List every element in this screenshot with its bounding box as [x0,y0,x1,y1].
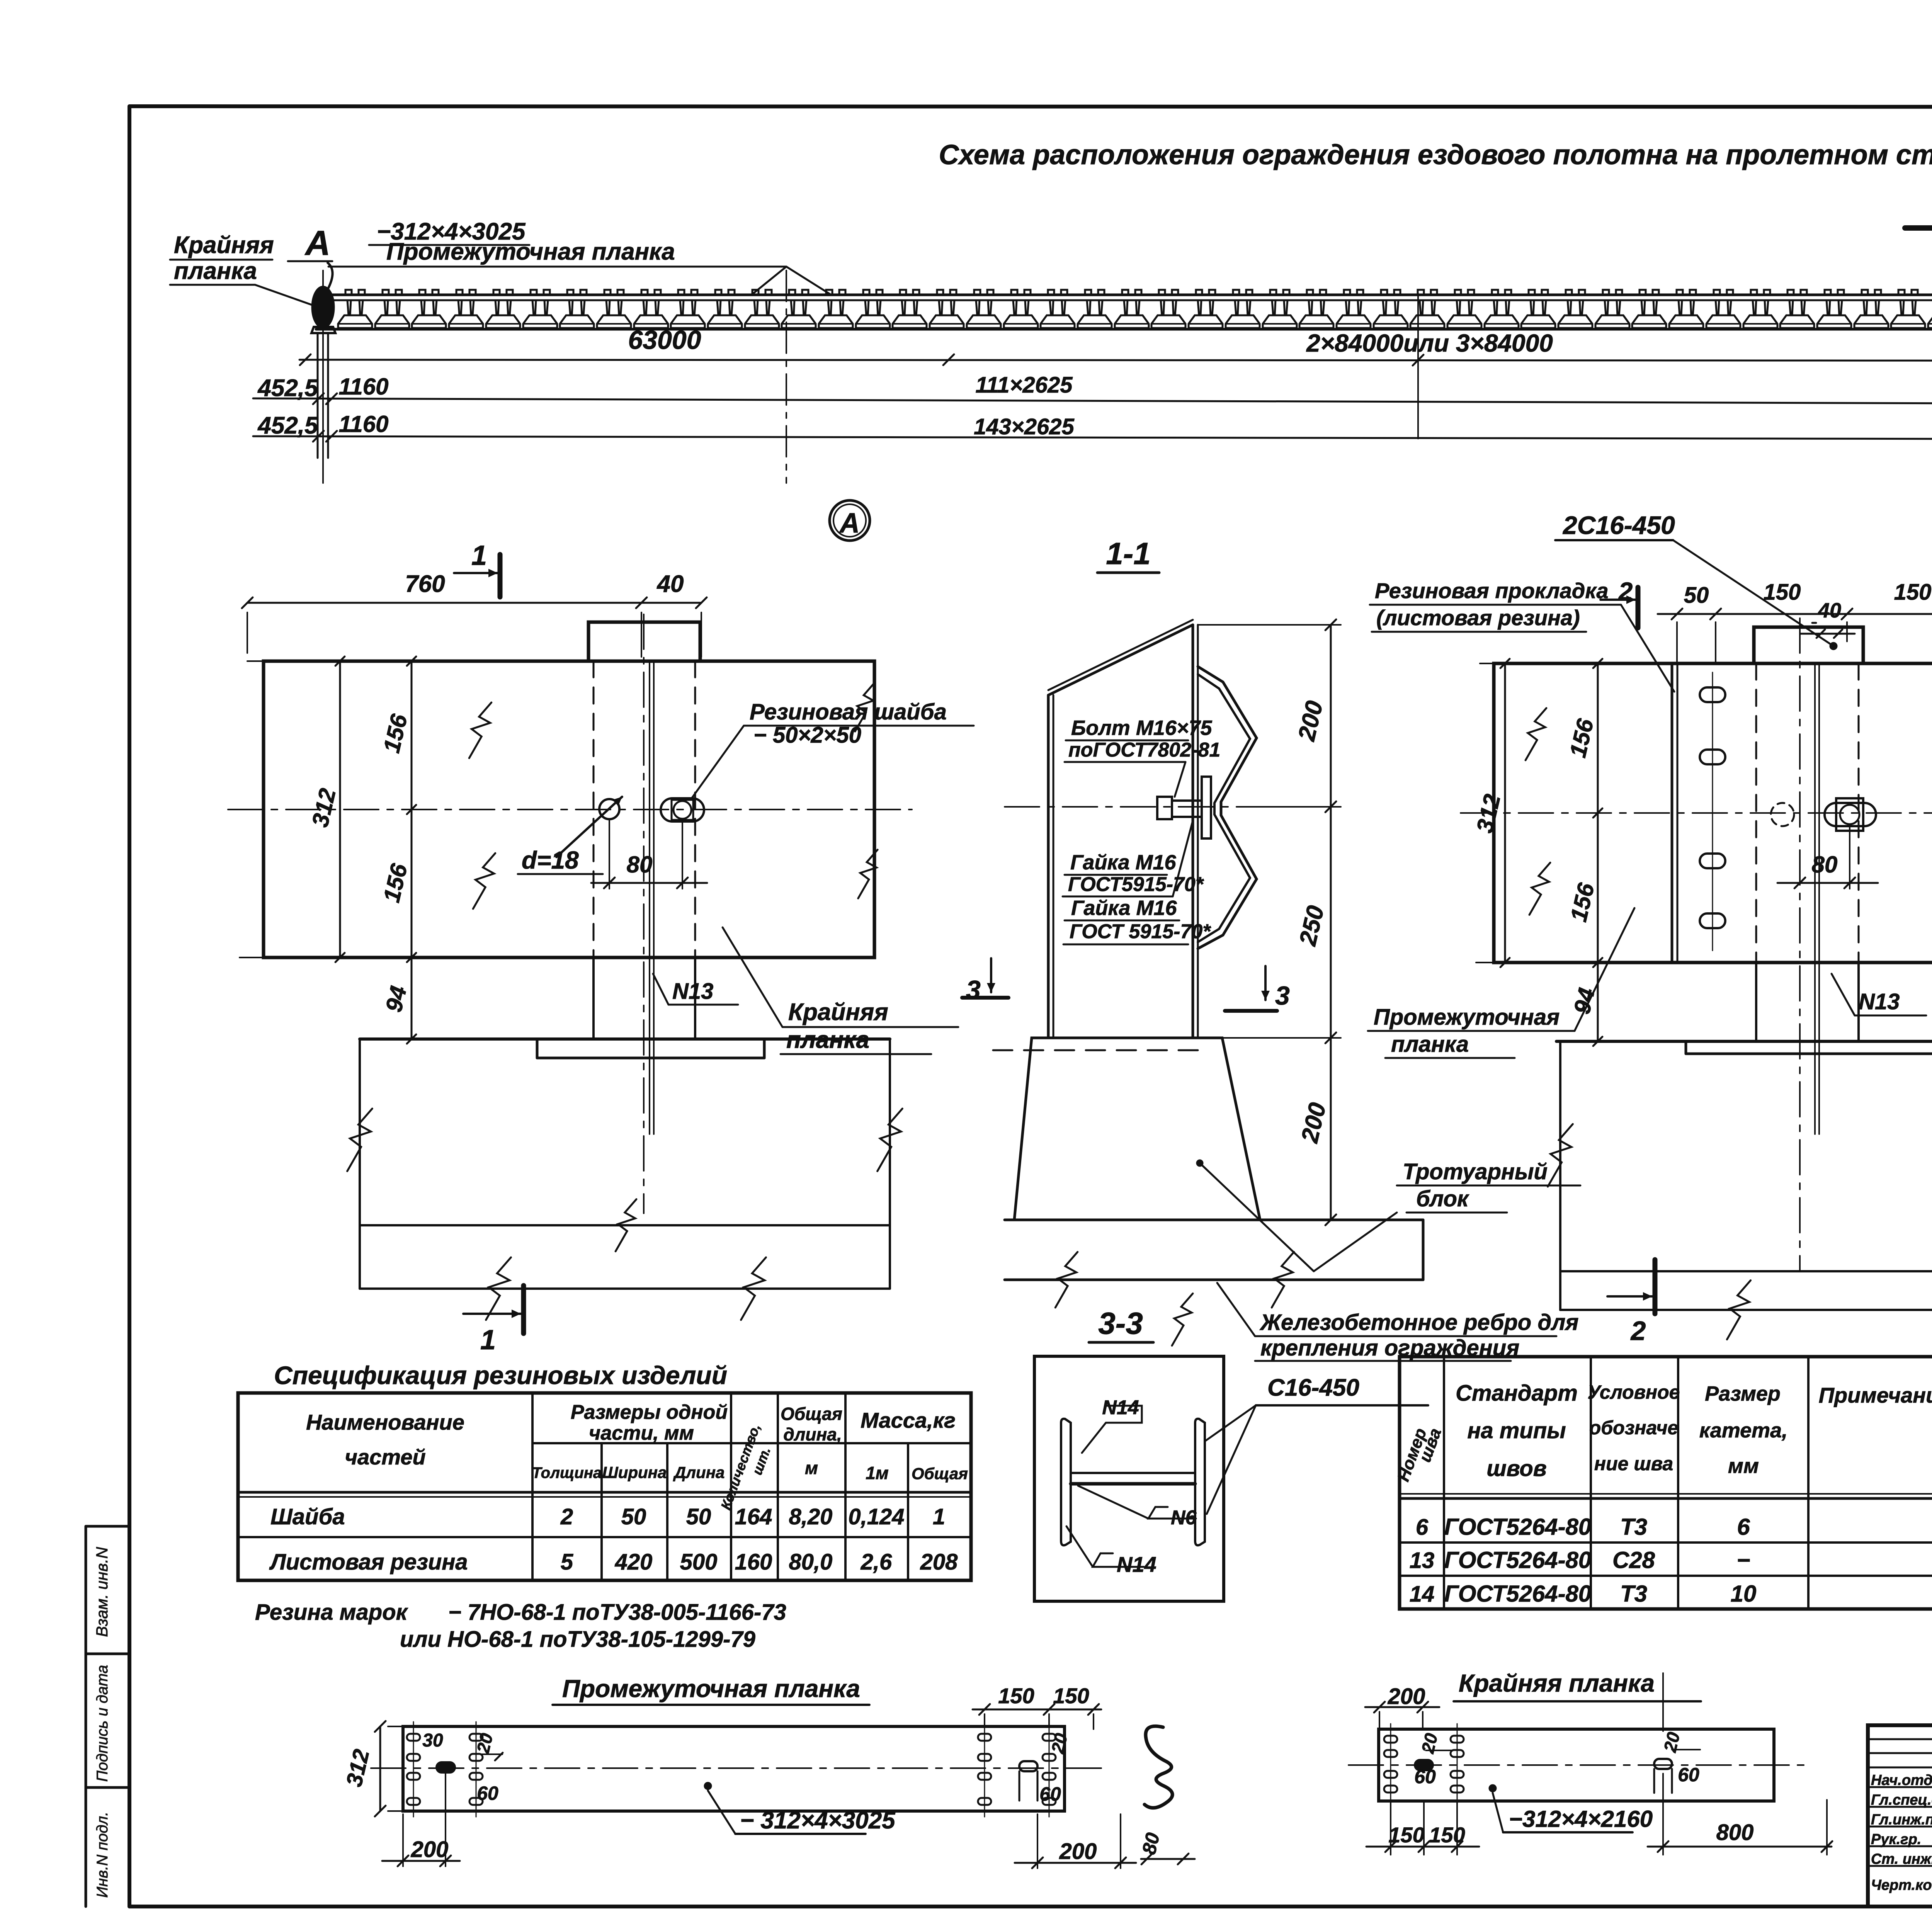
svg-text:катета,: катета, [1699,1419,1787,1442]
svg-text:Резиновая шайба: Резиновая шайба [750,699,947,724]
svg-text:части, мм: части, мм [589,1422,694,1444]
svg-text:ГОСТ5264-80: ГОСТ5264-80 [1444,1547,1592,1573]
svg-text:поГОСТ7802-81: поГОСТ7802-81 [1068,739,1220,761]
svg-text:м: м [805,1458,818,1478]
svg-text:2,6: 2,6 [861,1549,892,1575]
svg-text:50: 50 [686,1504,711,1529]
svg-text:8,20: 8,20 [789,1504,833,1529]
svg-text:Стандарт: Стандарт [1456,1381,1578,1406]
svg-text:или НО-68-1 поТУ38-105-1299-79: или НО-68-1 поТУ38-105-1299-79 [400,1627,755,1652]
svg-text:Крайняя: Крайняя [174,232,274,259]
svg-text:Рук.гр.: Рук.гр. [1871,1832,1921,1848]
svg-text:60: 60 [1414,1766,1436,1787]
svg-text:6: 6 [1737,1514,1750,1540]
svg-text:Длина: Длина [673,1463,725,1481]
svg-text:N13: N13 [672,979,713,1004]
svg-text:200: 200 [1388,1684,1425,1709]
svg-text:Инв.N подл.: Инв.N подл. [94,1812,111,1898]
svg-text:N13: N13 [1859,989,1900,1014]
svg-text:Спецификация резиновых изд: Спецификация резиновых изделий [274,1361,727,1389]
svg-text:452,5: 452,5 [257,375,318,401]
svg-text:Т3: Т3 [1620,1514,1647,1540]
svg-text:ГОСТ5264-80: ГОСТ5264-80 [1444,1581,1592,1607]
svg-text:800: 800 [1716,1820,1754,1845]
svg-text:Листовая резина: Листовая резина [269,1549,468,1575]
svg-text:Промежуточная планка: Промежуточная планка [562,1675,860,1702]
svg-text:1: 1 [933,1504,945,1529]
svg-text:150: 150 [1053,1684,1089,1708]
svg-text:200: 200 [411,1837,449,1862]
svg-text:40: 40 [656,571,684,597]
svg-text:Масса,кг: Масса,кг [861,1408,956,1432]
svg-text:60: 60 [1678,1764,1699,1786]
svg-text:Гайка М16: Гайка М16 [1070,851,1177,874]
svg-text:− 312×4×3025: − 312×4×3025 [740,1807,896,1834]
svg-text:2: 2 [1630,1316,1646,1346]
svg-text:111×2625: 111×2625 [975,372,1073,398]
svg-text:− 7НО-68-1 поТУ38-005-1166-73: − 7НО-68-1 поТУ38-005-1166-73 [448,1600,786,1625]
svg-text:ние шва: ние шва [1594,1453,1673,1475]
svg-text:3: 3 [1275,981,1290,1010]
svg-text:420: 420 [615,1549,653,1575]
svg-text:164: 164 [735,1504,772,1529]
svg-text:Железобетонное ребро для: Железобетонное ребро для [1259,1310,1578,1335]
svg-text:(листовая резина): (листовая резина) [1376,605,1580,630]
svg-text:обозначе: обозначе [1589,1417,1679,1439]
svg-text:Шайба: Шайба [270,1504,345,1529]
svg-text:40: 40 [1818,599,1841,622]
svg-text:3-3: 3-3 [1098,1306,1143,1340]
svg-text:на типы: на типы [1467,1418,1566,1443]
svg-text:150: 150 [998,1684,1034,1708]
svg-text:Взам. инв.N: Взам. инв.N [93,1547,111,1637]
svg-text:3: 3 [966,975,981,1005]
svg-text:Общая: Общая [781,1404,842,1424]
svg-text:160: 160 [735,1549,772,1575]
svg-text:6: 6 [1416,1515,1429,1540]
svg-text:Черт.конст: Черт.конст [1871,1877,1932,1893]
svg-text:Промежуточная: Промежуточная [1374,1005,1560,1030]
svg-text:ГОСТ5264-80: ГОСТ5264-80 [1444,1514,1592,1540]
svg-text:1м: 1м [866,1463,889,1483]
svg-text:блок: блок [1416,1186,1469,1211]
svg-text:N14: N14 [1117,1552,1156,1577]
svg-text:Размеры одной: Размеры одной [571,1401,728,1423]
svg-text:150: 150 [1764,580,1801,605]
svg-text:2: 2 [560,1504,573,1529]
svg-text:d=18: d=18 [522,846,579,874]
svg-text:Резиновая прокладка: Резиновая прокладка [1375,578,1609,603]
svg-text:80: 80 [1812,852,1838,878]
svg-text:208: 208 [920,1549,958,1575]
svg-text:0,124: 0,124 [848,1504,904,1529]
svg-text:Крайняя планка: Крайняя планка [1459,1669,1655,1697]
svg-text:С28: С28 [1612,1547,1655,1573]
svg-text:частей: частей [345,1445,425,1469]
svg-text:Ширина: Ширина [602,1463,667,1481]
svg-text:13: 13 [1410,1548,1435,1573]
svg-text:Ст. инж.: Ст. инж. [1871,1851,1932,1867]
svg-text:планка: планка [1391,1032,1469,1057]
svg-text:ГОСТ 5915-70*: ГОСТ 5915-70* [1070,920,1211,943]
svg-text:Размер: Размер [1705,1382,1781,1405]
svg-text:10: 10 [1731,1581,1757,1607]
svg-text:2×84000или 3×84000: 2×84000или 3×84000 [1306,329,1553,357]
svg-text:63000: 63000 [628,325,701,355]
svg-text:ГОСТ5915-70*: ГОСТ5915-70* [1068,873,1204,896]
svg-text:Подпись и дата: Подпись и дата [94,1665,111,1782]
svg-text:500: 500 [680,1549,718,1575]
svg-text:А: А [839,508,860,539]
svg-text:Общая: Общая [912,1464,968,1483]
svg-text:5: 5 [561,1549,573,1575]
svg-text:200: 200 [1059,1839,1097,1864]
svg-text:Крайняя: Крайняя [788,999,888,1026]
svg-text:1160: 1160 [338,411,388,437]
svg-text:Наименование: Наименование [306,1410,464,1434]
svg-text:Гайка М16: Гайка М16 [1071,896,1177,920]
svg-text:Гл.инж.пр: Гл.инж.пр [1871,1812,1932,1828]
svg-text:1: 1 [480,1325,496,1355]
svg-text:Условное: Условное [1588,1381,1680,1403]
svg-text:Тротуарный: Тротуарный [1403,1159,1548,1184]
svg-text:Схема расположения ограждения: Схема расположения ограждения ездового п… [939,139,1932,170]
svg-text:60: 60 [1039,1783,1061,1805]
svg-text:60: 60 [477,1782,498,1804]
svg-text:планка: планка [174,258,257,284]
svg-text:Гл.спец.отд: Гл.спец.отд [1871,1792,1932,1808]
svg-text:Болт М16×75: Болт М16×75 [1071,716,1212,740]
svg-text:50: 50 [621,1504,646,1529]
svg-text:Промежуточная планка: Промежуточная планка [386,238,675,265]
svg-text:мм: мм [1728,1454,1759,1478]
svg-text:С16-450: С16-450 [1267,1374,1359,1401]
svg-text:50: 50 [1684,583,1709,608]
svg-text:80,0: 80,0 [789,1549,833,1575]
svg-text:1-1: 1-1 [1106,536,1151,571]
svg-text:143×2625: 143×2625 [974,414,1074,439]
svg-text:452,5: 452,5 [257,412,318,439]
svg-text:1: 1 [471,540,487,571]
svg-text:Т3: Т3 [1620,1581,1647,1607]
svg-text:Толщина: Толщина [532,1464,602,1481]
svg-text:длина,: длина, [783,1424,842,1444]
svg-text:Нач.отд: Нач.отд [1871,1772,1932,1789]
svg-text:80: 80 [627,852,653,878]
svg-text:30: 30 [422,1730,443,1751]
svg-text:А: А [304,224,330,263]
svg-text:−312×4×2160: −312×4×2160 [1509,1806,1653,1832]
svg-text:Резина марок: Резина марок [255,1600,408,1625]
svg-text:150: 150 [1894,580,1932,605]
svg-text:швов: швов [1486,1456,1547,1481]
svg-text:760: 760 [405,571,445,597]
svg-text:Примечание: Примечание [1819,1383,1932,1407]
svg-text:2С16-450: 2С16-450 [1562,511,1675,539]
svg-text:N14: N14 [1102,1396,1139,1419]
svg-text:−: − [1736,1547,1750,1573]
svg-text:14: 14 [1410,1582,1435,1607]
svg-text:1160: 1160 [338,374,388,400]
